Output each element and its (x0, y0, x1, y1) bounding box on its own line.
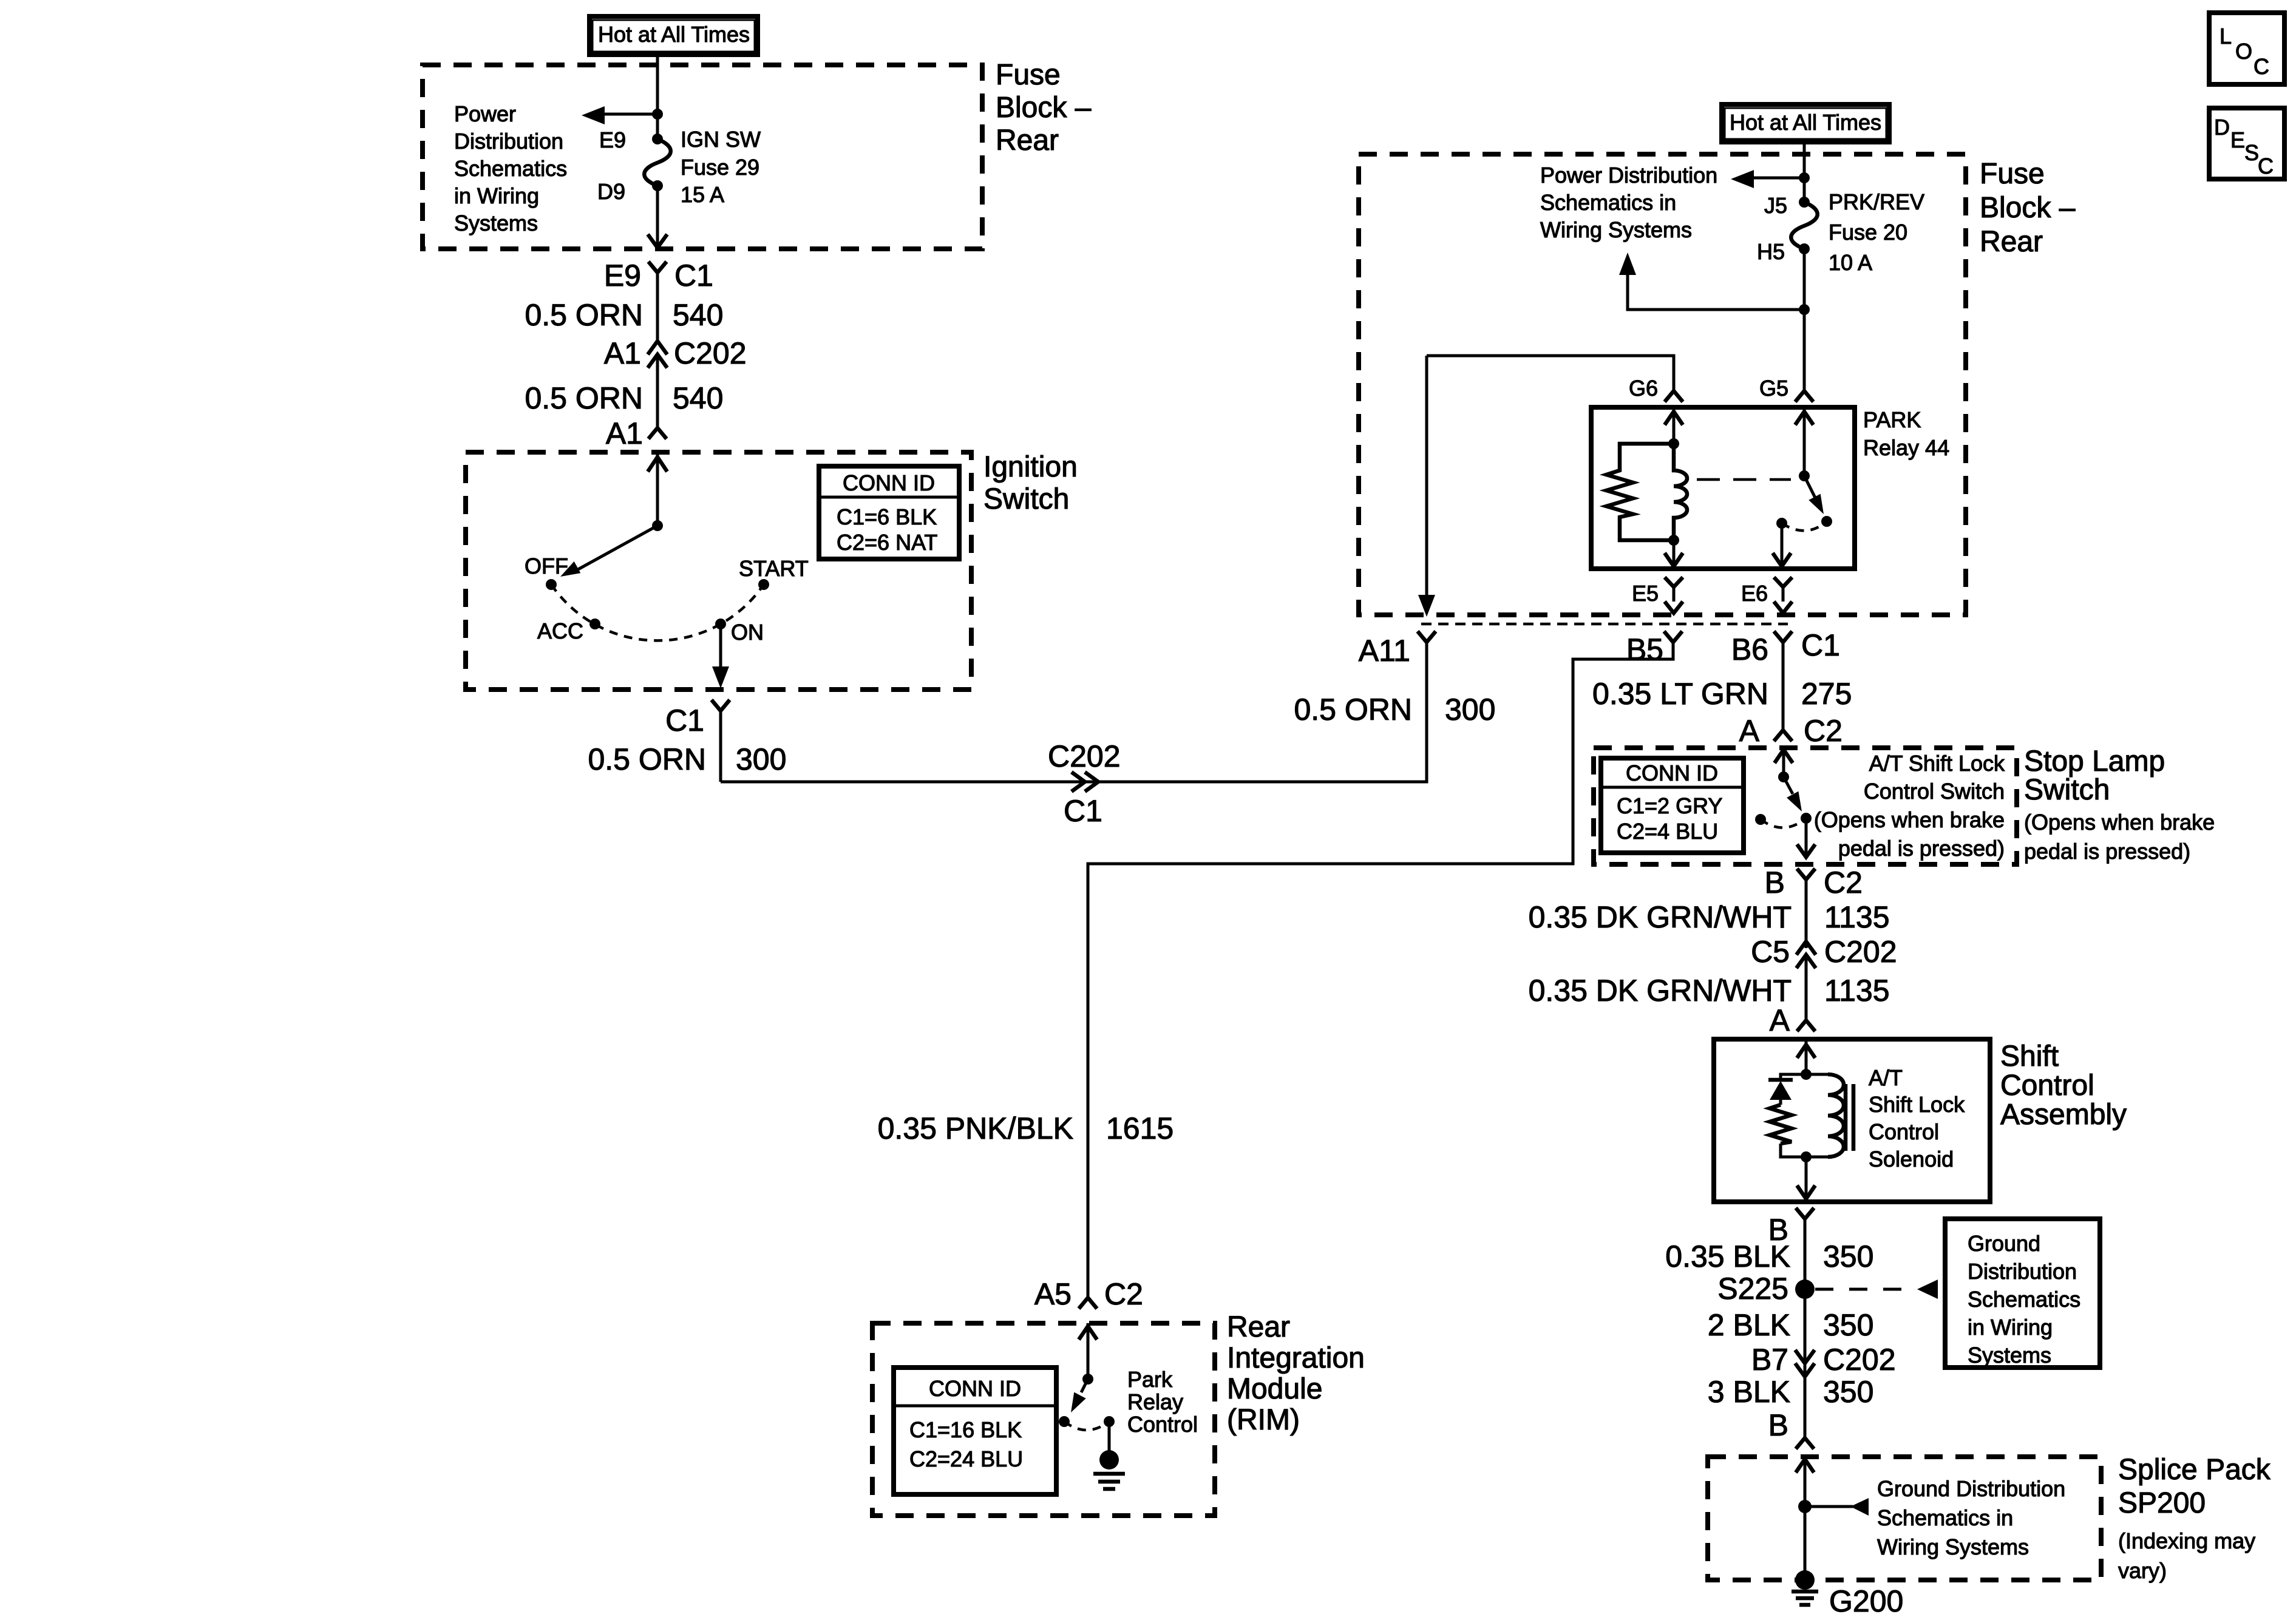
node relay coil bottom (1668, 535, 1679, 546)
svg-text:L: L (2220, 24, 2232, 49)
fuse IGN SW Fuse 29 15 A (644, 134, 671, 191)
svg-text:0.5 ORN: 0.5 ORN (525, 298, 643, 332)
dashed box Fuse Block - Rear (left) (423, 65, 982, 249)
wire label 0.5 ORN 540 (second) (525, 381, 723, 415)
contact stop lamp right (1801, 813, 1812, 824)
contact stop lamp left (1755, 814, 1766, 825)
wire label 0.35 PNK/BLK 1615 (878, 1111, 1174, 1145)
wire solenoid to box exit with open arrow (1797, 1157, 1815, 1199)
svg-text:B5: B5 (1626, 632, 1663, 666)
icon box DESC (2209, 108, 2284, 179)
svg-text:A11: A11 (1359, 634, 1410, 668)
contact RIM left (1059, 1416, 1070, 1427)
contact ACC (589, 619, 600, 629)
svg-text:Wiring Systems: Wiring Systems (1540, 217, 1692, 242)
dashed arc ignition positions (551, 585, 764, 640)
ground G200 (1792, 1570, 1818, 1605)
svg-text:C1: C1 (665, 703, 704, 737)
solid arrow to ground distribution box (1917, 1280, 1938, 1299)
dashed box Splice Pack SP200 (1708, 1457, 2101, 1580)
connector B5 (1088, 631, 1682, 1298)
svg-text:C2: C2 (1104, 1277, 1143, 1311)
svg-text:C: C (2254, 54, 2269, 79)
svg-text:C202: C202 (674, 336, 747, 370)
svg-text:Switch: Switch (983, 483, 1069, 515)
connector E9/C1 below fuse block (648, 262, 667, 340)
dashed arc relay contacts (1782, 521, 1827, 531)
power label box "Hot at All Times" (left) (589, 16, 758, 55)
node ignition common (652, 520, 663, 531)
svg-text:C202: C202 (1824, 935, 1897, 969)
svg-text:1615: 1615 (1106, 1111, 1173, 1145)
svg-text:A5: A5 (1034, 1277, 1072, 1311)
svg-text:275: 275 (1801, 677, 1852, 711)
contact relay common left (1776, 518, 1787, 529)
wire label 0.35 BLK 350 (1665, 1239, 1873, 1273)
svg-text:Rear: Rear (1980, 226, 2043, 258)
connector A1 at ignition switch (648, 428, 667, 439)
svg-text:C1: C1 (1801, 628, 1840, 662)
connector A/C2 stop lamp (1774, 730, 1792, 741)
contact ON (715, 619, 726, 629)
svg-text:2 BLK: 2 BLK (1708, 1308, 1790, 1342)
svg-text:540: 540 (673, 298, 723, 332)
node relay coil top (1668, 438, 1679, 449)
wire from Hot box (right) (1803, 142, 1806, 202)
label Park Relay Control (1127, 1367, 1198, 1437)
dashed arc RIM contacts (1064, 1422, 1109, 1430)
label A/T Shift Lock Control Switch (inner) (1814, 751, 2005, 861)
open arrow up relay coil pin (1665, 407, 1683, 444)
dashed link relay actuation (1697, 478, 1791, 481)
svg-text:(Indexing may: (Indexing may (2118, 1528, 2255, 1553)
stop lamp switch arrow (1784, 777, 1808, 815)
svg-text:Shift: Shift (2000, 1040, 2059, 1073)
svg-text:Relay 44: Relay 44 (1863, 435, 1949, 460)
wire relay contact to E6 with open arrow (1773, 523, 1791, 566)
svg-text:E9: E9 (599, 127, 626, 152)
svg-text:in Wiring: in Wiring (454, 183, 539, 208)
svg-text:G6: G6 (1629, 376, 1658, 401)
contact RIM right (1104, 1416, 1115, 1427)
CONN ID box stop lamp (1601, 758, 1744, 853)
svg-text:Splice Pack: Splice Pack (2118, 1454, 2271, 1486)
svg-text:Wiring Systems: Wiring Systems (1877, 1534, 2029, 1559)
coil (relay) (1674, 444, 1687, 540)
svg-text:(Opens when brake: (Opens when brake (1814, 807, 2005, 832)
wire stop lamp exit with open arrow (1797, 818, 1815, 857)
switch lever arrow to OFF (557, 526, 657, 583)
svg-text:Fuse 20: Fuse 20 (1829, 220, 1907, 245)
svg-text:A: A (1739, 714, 1760, 748)
icon box LOC (2209, 13, 2284, 84)
svg-text:C1: C1 (674, 259, 713, 293)
svg-text:Control: Control (1127, 1412, 1198, 1437)
svg-text:1135: 1135 (1824, 900, 1890, 934)
wire C202 horizontal run (721, 642, 1427, 782)
power label box "Hot at All Times" (right) (1722, 104, 1889, 142)
dashed arc stop lamp contacts (1761, 818, 1806, 828)
svg-text:OFF: OFF (525, 554, 568, 578)
svg-text:C202: C202 (1823, 1343, 1896, 1377)
svg-text:Rear: Rear (1227, 1311, 1290, 1343)
svg-text:Assembly: Assembly (2000, 1099, 2127, 1131)
connector B6/C1 (1774, 631, 1792, 730)
svg-text:Schematics in: Schematics in (1540, 190, 1676, 215)
svg-text:Systems: Systems (1968, 1343, 2051, 1368)
thin dashed connector line C1 (1421, 623, 1788, 626)
wire label 0.5 ORN 540 (525, 298, 723, 332)
solid arrow to Power Distribution Schematics (582, 106, 605, 124)
svg-text:C5: C5 (1751, 935, 1790, 969)
svg-text:SP200: SP200 (2118, 1487, 2206, 1519)
dashed reference line from S225 (1815, 1288, 1917, 1291)
svg-text:(RIM): (RIM) (1227, 1404, 1300, 1436)
svg-text:C2=4 BLU: C2=4 BLU (1617, 819, 1718, 844)
svg-text:C1=6 BLK: C1=6 BLK (837, 504, 937, 529)
svg-text:Module: Module (1227, 1373, 1322, 1405)
svg-text:A1: A1 (604, 336, 641, 370)
svg-text:ON: ON (731, 620, 764, 645)
label A/T Shift Lock Control Solenoid (1869, 1065, 1965, 1171)
svg-text:in Wiring: in Wiring (1968, 1315, 2053, 1340)
svg-text:0.35 DK GRN/WHT: 0.35 DK GRN/WHT (1529, 974, 1792, 1008)
contact relay NO right (1821, 516, 1832, 527)
pin connector G5 (1795, 391, 1813, 402)
svg-text:Control: Control (2000, 1070, 2094, 1102)
wire A11 riser with solid down arrow (1418, 356, 1435, 617)
open arrow up at ignition entry (648, 452, 667, 526)
solid arrow to Power Distribution (right) (1731, 170, 1754, 188)
svg-text:H5: H5 (1757, 239, 1785, 264)
svg-text:C2=6 NAT: C2=6 NAT (837, 530, 937, 555)
open arrow up shift entry (1797, 1039, 1815, 1074)
svg-text:Power: Power (454, 101, 516, 126)
svg-text:540: 540 (673, 381, 723, 415)
svg-text:Distribution: Distribution (454, 129, 563, 154)
coil A/T Shift Lock Control Solenoid (1806, 1074, 1853, 1157)
diode and resistor branch (1768, 1074, 1806, 1157)
svg-text:O: O (2235, 39, 2252, 64)
svg-text:Block –: Block – (1980, 192, 2076, 224)
svg-text:pedal is pressed): pedal is pressed) (2024, 839, 2190, 864)
svg-text:J5: J5 (1764, 193, 1787, 218)
svg-text:S: S (2244, 140, 2259, 165)
contact START (758, 579, 769, 590)
svg-text:350: 350 (1823, 1375, 1873, 1409)
svg-text:10 A: 10 A (1829, 250, 1872, 275)
svg-text:C2: C2 (1824, 866, 1863, 900)
svg-text:D: D (2214, 115, 2230, 140)
connector A1/C202 double chevron (648, 341, 667, 428)
svg-text:300: 300 (736, 742, 786, 776)
label PARK Relay 44 (1863, 407, 1949, 460)
svg-text:0.35 DK GRN/WHT: 0.35 DK GRN/WHT (1529, 900, 1792, 934)
CONN ID box ignition (819, 466, 959, 559)
node solenoid bottom (1801, 1151, 1812, 1162)
svg-text:PARK: PARK (1863, 407, 1921, 432)
svg-text:0.5 ORN: 0.5 ORN (1294, 693, 1412, 727)
wire from Hot box into fuse block (656, 55, 659, 139)
svg-text:Ground Distribution: Ground Distribution (1877, 1476, 2065, 1501)
wire ON to ignition exit with solid arrow (712, 624, 729, 688)
svg-text:Switch: Switch (2024, 774, 2110, 806)
open arrow up relay switch pin (1795, 407, 1813, 476)
reference box Ground Distribution Schematics in Wiring Systems (1945, 1219, 2100, 1368)
svg-text:A: A (1770, 1003, 1790, 1037)
connector C5/C202 double chevron (1796, 941, 1816, 1020)
svg-text:Power Distribution: Power Distribution (1540, 163, 1717, 188)
label Splice Pack SP200 (2118, 1454, 2271, 1583)
wire fuse down to relay G5 (1803, 249, 1806, 390)
wire to power distribution arrow (right) (1751, 177, 1804, 180)
connector B7/C202 double chevron down (1795, 1350, 1815, 1377)
svg-text:D9: D9 (597, 179, 625, 204)
connector A shift control (1797, 1020, 1815, 1031)
node solenoid top (1801, 1069, 1812, 1080)
dashed box Rear Integration Module (872, 1323, 1215, 1516)
wire label 0.5 ORN 300 (A11) (1294, 693, 1495, 727)
CONN ID box RIM (894, 1368, 1056, 1494)
relay armature arrow (1804, 476, 1830, 517)
dashed box Stop Lamp Switch (1594, 748, 2017, 864)
node splice junction (1798, 1500, 1812, 1513)
svg-text:B: B (1768, 1408, 1788, 1442)
label Fuse Block - Rear (right) (1980, 158, 2076, 258)
box Shift Control Assembly (1714, 1039, 1990, 1202)
svg-text:B7: B7 (1751, 1343, 1788, 1377)
open arrow up RIM entry (1079, 1323, 1097, 1379)
wire label 0.35 LT GRN 275 (1592, 677, 1852, 711)
wire RIM contact to ground (1108, 1422, 1111, 1460)
connector B splice pack (1796, 1438, 1814, 1449)
svg-text:Block –: Block – (996, 92, 1092, 124)
svg-text:Fuse: Fuse (1980, 158, 2045, 190)
connector A5/C2 RIM (1079, 1298, 1097, 1309)
svg-text:Hot at All Times: Hot at All Times (1730, 110, 1881, 135)
svg-text:0.35 BLK: 0.35 BLK (1665, 1239, 1790, 1273)
wire to power distribution arrow (601, 113, 657, 116)
svg-text:Fuse: Fuse (996, 59, 1061, 91)
splice S225 (1795, 1280, 1815, 1299)
svg-text:pedal is pressed): pedal is pressed) (1838, 836, 2005, 861)
svg-text:A/T Shift Lock: A/T Shift Lock (1869, 751, 2005, 776)
connector C1 below ignition (712, 700, 730, 782)
svg-text:CONN ID: CONN ID (929, 1376, 1021, 1401)
svg-text:0.35 PNK/BLK: 0.35 PNK/BLK (878, 1111, 1073, 1145)
svg-text:C: C (2258, 154, 2274, 178)
svg-text:G5: G5 (1759, 376, 1788, 401)
svg-text:A1: A1 (606, 416, 643, 450)
svg-text:C2=24 BLU: C2=24 BLU (909, 1446, 1023, 1471)
svg-text:B6: B6 (1731, 632, 1768, 666)
svg-text:C2: C2 (1804, 714, 1843, 748)
label Ignition Switch (983, 451, 1078, 515)
contact OFF (546, 579, 557, 590)
svg-text:Integration: Integration (1227, 1342, 1365, 1374)
svg-text:Fuse 29: Fuse 29 (681, 155, 759, 180)
connector C202 in-line double chevron right (1072, 772, 1098, 792)
svg-text:G200: G200 (1829, 1584, 1903, 1617)
svg-text:0.5 ORN: 0.5 ORN (588, 742, 706, 776)
label Power Distribution Schematics in Wiring Systems (right) (1540, 163, 1717, 242)
svg-text:300: 300 (1445, 693, 1495, 727)
svg-text:(Opens when brake: (Opens when brake (2024, 810, 2215, 835)
svg-text:E9: E9 (604, 259, 641, 293)
connector A11 (1418, 631, 1436, 782)
wire coil bottom to E5 with open arrow (1665, 540, 1683, 566)
svg-text:CONN ID: CONN ID (1626, 761, 1718, 785)
svg-text:Shift Lock: Shift Lock (1869, 1092, 1965, 1117)
dashed box Ignition Switch (466, 452, 971, 690)
wire branch with solid up arrow (1619, 253, 1804, 310)
RIM park relay control arrow (1065, 1379, 1088, 1415)
label Power Distribution Schematics in Wiring Systems (left) (454, 101, 567, 236)
pin connector E5 (1665, 577, 1683, 613)
svg-text:1135: 1135 (1824, 974, 1890, 1008)
svg-text:C1=16 BLK: C1=16 BLK (909, 1417, 1022, 1442)
solid arrow ground distribution reference (1850, 1498, 1869, 1516)
label Shift Control Assembly (2000, 1040, 2127, 1131)
node RIM switch pivot (1082, 1374, 1093, 1385)
label Stop Lamp Switch (outer) (2024, 745, 2215, 864)
svg-text:350: 350 (1823, 1308, 1873, 1342)
svg-text:Control Switch: Control Switch (1864, 779, 2005, 804)
svg-text:15 A: 15 A (681, 182, 724, 207)
svg-text:Hot at All Times: Hot at All Times (598, 22, 750, 47)
svg-text:PRK/REV: PRK/REV (1829, 189, 1924, 214)
pin connector G6 (1665, 391, 1683, 402)
wire label 0.35 DK GRN/WHT 1135 (second) (1529, 974, 1890, 1008)
svg-text:350: 350 (1823, 1239, 1873, 1273)
svg-text:0.5 ORN: 0.5 ORN (525, 381, 643, 415)
open arrow up splice entry (1796, 1457, 1814, 1580)
svg-text:IGN SW: IGN SW (681, 127, 761, 152)
svg-text:E6: E6 (1741, 581, 1768, 606)
connector B/C2 below stop lamp (1797, 869, 1815, 948)
dashed box Fuse Block - Rear (right) (1359, 154, 1966, 615)
node junction to up-arrow branch (1799, 304, 1810, 315)
node stop lamp pivot (1778, 771, 1789, 782)
label IGN SW Fuse 29 15 A (681, 127, 761, 207)
relay box PARK Relay 44 (1591, 407, 1855, 569)
svg-text:Stop Lamp: Stop Lamp (2024, 745, 2165, 778)
wire label 3 BLK 350 (1708, 1375, 1874, 1409)
svg-text:ACC: ACC (537, 619, 583, 643)
wire label 0.35 DK GRN/WHT 1135 (1529, 900, 1890, 934)
svg-text:Ground: Ground (1968, 1231, 2040, 1256)
svg-text:Systems: Systems (454, 211, 538, 236)
svg-text:Ignition: Ignition (983, 451, 1078, 483)
svg-text:Distribution: Distribution (1968, 1259, 2077, 1284)
pin connector E6 (1774, 577, 1792, 613)
wire label 0.5 ORN 300 (588, 742, 786, 776)
node relay armature pivot (1799, 470, 1810, 481)
svg-text:vary): vary) (2118, 1558, 2167, 1583)
svg-text:Control: Control (1869, 1119, 1939, 1144)
svg-text:3 BLK: 3 BLK (1708, 1375, 1790, 1409)
svg-text:C1: C1 (1064, 794, 1102, 828)
svg-text:CONN ID: CONN ID (843, 470, 935, 495)
node junction right fuse feed (1799, 172, 1810, 183)
svg-text:Park: Park (1127, 1367, 1173, 1392)
svg-text:Schematics: Schematics (1968, 1287, 2080, 1312)
svg-text:Relay: Relay (1127, 1389, 1183, 1414)
svg-text:S225: S225 (1717, 1272, 1788, 1306)
svg-text:B: B (1765, 866, 1785, 900)
ground RIM (1093, 1450, 1125, 1489)
label Ground Distribution Schematics in Wiring Systems (splice) (1877, 1476, 2065, 1559)
fuse PRK/REV Fuse 20 10 A (1791, 197, 1818, 254)
open arrow down at fuse block exit (648, 234, 667, 248)
svg-text:Solenoid: Solenoid (1869, 1147, 1954, 1171)
wire fuse to box edge (656, 186, 659, 248)
svg-text:E5: E5 (1632, 581, 1659, 606)
svg-text:C1=2 GRY: C1=2 GRY (1617, 793, 1722, 818)
node junction at E9 feed (652, 109, 663, 120)
svg-text:C202: C202 (1048, 739, 1121, 773)
label Rear Integration Module (RIM) (1227, 1311, 1365, 1436)
svg-text:Rear: Rear (996, 124, 1059, 157)
svg-text:A/T: A/T (1869, 1065, 1903, 1090)
label Fuse Block - Rear (left) (996, 59, 1092, 157)
svg-text:START: START (739, 556, 809, 581)
svg-text:0.35 LT GRN: 0.35 LT GRN (1592, 677, 1768, 711)
svg-text:E: E (2230, 127, 2245, 152)
svg-text:Schematics in: Schematics in (1877, 1505, 2013, 1530)
wire G6 feed from A11 riser (1427, 356, 1674, 390)
wire label 2 BLK 350 (1708, 1308, 1874, 1342)
connector B below shift control (1796, 1208, 1814, 1438)
wire to ground distribution arrow (1805, 1505, 1853, 1508)
open arrow up stop lamp entry (1775, 748, 1793, 777)
label PRK/REV Fuse 20 10 A (1829, 189, 1924, 275)
svg-text:Schematics: Schematics (454, 156, 567, 181)
resistor (relay) (1606, 444, 1674, 540)
